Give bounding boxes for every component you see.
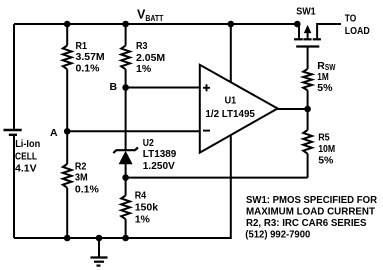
svg-text:SW1: PMOS SPECIFIED FOR: SW1: PMOS SPECIFIED FOR bbox=[246, 194, 377, 206]
svg-text:TO: TO bbox=[345, 12, 357, 24]
svg-text:LOAD: LOAD bbox=[345, 25, 370, 37]
svg-text:R2, R3: IRC CAR6 SERIES: R2, R3: IRC CAR6 SERIES bbox=[246, 217, 367, 229]
svg-text:R1: R1 bbox=[76, 40, 88, 52]
svg-text:R4: R4 bbox=[135, 190, 147, 202]
svg-text:CELL: CELL bbox=[15, 151, 37, 163]
svg-text:0.1%: 0.1% bbox=[76, 62, 101, 74]
svg-text:1%: 1% bbox=[135, 213, 151, 225]
svg-text:U1: U1 bbox=[225, 95, 237, 107]
svg-text:LT1389: LT1389 bbox=[143, 148, 177, 160]
svg-text:R3: R3 bbox=[136, 40, 148, 52]
svg-text:5%: 5% bbox=[318, 155, 334, 167]
svg-text:Li-Ion: Li-Ion bbox=[15, 138, 40, 150]
svg-text:150k: 150k bbox=[135, 202, 159, 214]
svg-text:10M: 10M bbox=[318, 143, 335, 155]
svg-text:A: A bbox=[50, 127, 58, 139]
svg-text:1.250V: 1.250V bbox=[143, 160, 175, 172]
svg-text:5%: 5% bbox=[317, 82, 333, 94]
svg-text:3.57M: 3.57M bbox=[76, 51, 105, 63]
svg-text:3M: 3M bbox=[75, 172, 88, 184]
svg-text:1/2 LT1495: 1/2 LT1495 bbox=[205, 108, 255, 120]
svg-text:(512) 992-7900: (512) 992-7900 bbox=[245, 228, 310, 240]
svg-text:0.1%: 0.1% bbox=[75, 183, 100, 195]
svg-text:B: B bbox=[110, 81, 118, 93]
svg-text:4.1V: 4.1V bbox=[15, 163, 37, 175]
svg-text:R5: R5 bbox=[318, 132, 330, 144]
svg-text:MAXIMUM LOAD CURRENT: MAXIMUM LOAD CURRENT bbox=[246, 206, 376, 218]
svg-text:SW1: SW1 bbox=[296, 5, 316, 17]
svg-text:1%: 1% bbox=[136, 63, 152, 75]
